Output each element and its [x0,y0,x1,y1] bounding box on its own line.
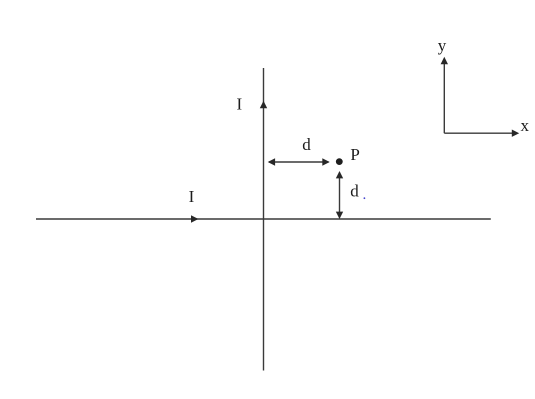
wire: vertical current-carrying wire [263,68,265,371]
svg-text:I: I [236,94,242,113]
axis y: coordinate frame vertical axis [443,59,445,133]
svg-text:d: d [302,135,311,154]
svg-text:d: d [350,181,359,200]
wire: horizontal current-carrying wire [36,218,491,220]
stray blue dot [364,197,366,199]
axis x: coordinate frame horizontal axis [444,132,517,134]
arrowhead: upward current direction on vertical wire [260,101,267,108]
svg-text:I: I [189,187,195,206]
dimension arrow: horizontal distance d from vertical wire to P [269,161,329,163]
svg-text:y: y [438,36,447,55]
node P: field point dot [336,158,343,165]
svg-text:x: x [521,116,530,135]
arrowhead: rightward current direction on horizontal wire [191,215,198,222]
svg-text:P: P [350,145,359,164]
dimension arrow: vertical distance d from P to horizontal wire [339,173,341,218]
